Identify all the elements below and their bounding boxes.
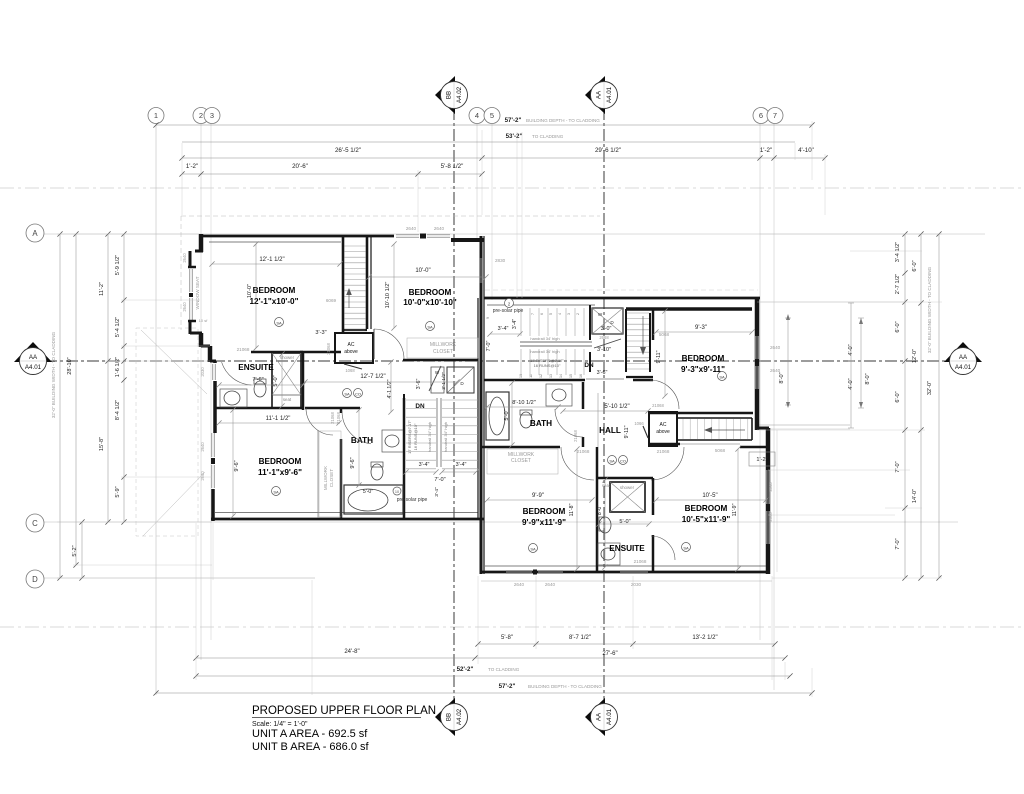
svg-text:10'-10 1/2": 10'-10 1/2": [385, 282, 391, 309]
stair A treads: [345, 245, 366, 247]
svg-text:BB: BB: [446, 713, 453, 721]
svg-text:3'-4": 3'-4": [419, 462, 430, 468]
ensuite A bottom wall: [214, 407, 303, 410]
stair B lower flight treads: [520, 349, 522, 375]
svg-text:CLOSET: CLOSET: [511, 458, 531, 464]
svg-text:10'-0"x10'-10": 10'-0"x10'-10": [403, 298, 457, 307]
dim line 26'-5 1/2 / 29'-6 1/2 top: [182, 157, 825, 159]
svg-text:A4.02: A4.02: [456, 708, 463, 725]
section marker AA bottom: [585, 698, 605, 736]
svg-text:5068: 5068: [715, 448, 726, 453]
svg-text:MILLWORK: MILLWORK: [323, 465, 328, 490]
svg-text:4'-10": 4'-10": [798, 147, 814, 154]
svg-text:13: 13: [549, 374, 553, 378]
roof line below unit B: [481, 580, 772, 582]
grid line 7: [773, 120, 775, 690]
svg-text:2640: 2640: [182, 253, 187, 263]
unit A bottom wall: [211, 518, 484, 521]
W/D closet unit A: [431, 367, 444, 393]
hall bottom wall mid: [648, 443, 680, 446]
door arc ensuite A: [222, 362, 252, 385]
svg-text:shower: shower: [620, 485, 635, 490]
right extension lines: [760, 233, 942, 235]
svg-text:BEDROOM: BEDROOM: [409, 288, 452, 297]
hall bottom walls: [481, 446, 560, 449]
svg-text:57'-2": 57'-2": [505, 117, 522, 124]
svg-text:2030: 2030: [631, 582, 642, 587]
bedroom B3 depth dim line: [737, 449, 739, 569]
roof outline dashed lower-left: [136, 328, 198, 536]
svg-text:9: 9: [486, 317, 490, 319]
door arc bath A: [342, 411, 371, 444]
svg-text:53'-2": 53'-2": [506, 133, 523, 140]
unit B right wall upper: [755, 298, 760, 430]
svg-text:3'-1 1/2": 3'-1 1/2": [441, 372, 447, 390]
ensuite A top wall: [251, 351, 303, 354]
svg-text:AA: AA: [959, 354, 968, 361]
door leaf AC closet: [344, 364, 362, 369]
svg-text:8'-10 1/2": 8'-10 1/2": [512, 400, 536, 406]
svg-text:2640: 2640: [200, 442, 205, 452]
svg-text:26'-5 1/2": 26'-5 1/2": [335, 147, 361, 154]
svg-text:52'-2": 52'-2": [457, 666, 474, 673]
bedroom B1 door stub wall: [633, 379, 653, 382]
dim line 57'-2" top: [156, 124, 812, 126]
window 2640 right upper2: [755, 366, 757, 389]
svg-text:BUILDING DEPTH - TO CLADDING: BUILDING DEPTH - TO CLADDING: [528, 684, 602, 689]
svg-text:7'-6": 7'-6": [252, 377, 263, 383]
svg-text:handrail 34" high: handrail 34" high: [427, 422, 432, 452]
grid line 6: [759, 120, 761, 640]
door arc bedroom A3: [306, 408, 333, 435]
svg-text:2640: 2640: [182, 302, 187, 312]
svg-text:10: 10: [395, 490, 399, 494]
right dim 32'-0 building width: [938, 234, 940, 578]
window 2640 bottom 2: [538, 570, 563, 572]
unit A top wall inner face: [209, 241, 341, 243]
hall B extension line: [597, 393, 599, 447]
svg-text:AA: AA: [596, 712, 603, 721]
svg-text:BEDROOM: BEDROOM: [523, 507, 566, 516]
svg-text:3'-4": 3'-4": [498, 326, 509, 332]
svg-text:3'-6": 3'-6": [416, 379, 422, 390]
wall at bedroom1 bottom / hall: [300, 351, 341, 354]
svg-text:10'-0": 10'-0": [415, 268, 430, 274]
svg-text:2'-7 1/2": 2'-7 1/2": [895, 274, 901, 294]
svg-text:1: 1: [154, 111, 158, 120]
svg-text:16 RUNS@10": 16 RUNS@10": [413, 423, 418, 450]
window 2030 left: [212, 364, 214, 380]
window 5068 hall south: [680, 443, 740, 445]
stair B down arrow: [642, 316, 644, 350]
bottom extension lines: [195, 523, 197, 680]
grid bubble 4: [469, 108, 485, 124]
svg-text:SA: SA: [276, 321, 282, 326]
bath A left wall: [340, 408, 343, 413]
svg-text:Scale: 1/4" = 1'-0": Scale: 1/4" = 1'-0": [252, 721, 308, 728]
shower A enclosure: [272, 353, 301, 408]
svg-text:9'-9"x11'-9": 9'-9"x11'-9": [522, 518, 566, 527]
svg-text:6069: 6069: [326, 298, 337, 303]
window 2640 left lower 2: [211, 465, 213, 488]
bath A tub: [344, 485, 403, 514]
left dim 32'-0 building width: [59, 234, 61, 578]
svg-text:9'-11": 9'-11": [656, 350, 662, 363]
unit A left wall upper: [199, 234, 204, 252]
ensuite A width dim line: [219, 384, 303, 386]
svg-text:2030: 2030: [200, 367, 205, 377]
hall A depth dim line: [390, 362, 392, 412]
unit B bottom wall: [481, 571, 770, 574]
svg-text:DN: DN: [415, 403, 425, 410]
top extension lines: [181, 143, 183, 215]
svg-text:2668: 2668: [599, 335, 609, 340]
svg-text:TO CLADDING: TO CLADDING: [532, 134, 564, 139]
ensuite B width dim line: [599, 523, 649, 525]
svg-text:2: 2: [199, 111, 203, 120]
svg-text:2840: 2840: [768, 482, 773, 492]
svg-text:11'-1 1/2": 11'-1 1/2": [266, 416, 291, 422]
bedroom B1 bottom wall: [648, 412, 753, 415]
extension verticals above unit B: [516, 132, 518, 298]
left extension lines: [57, 233, 199, 235]
svg-text:3'-0": 3'-0": [601, 326, 612, 332]
svg-text:5068: 5068: [659, 332, 670, 337]
svg-text:BEDROOM: BEDROOM: [682, 354, 725, 363]
svg-text:2640: 2640: [514, 582, 525, 587]
bottom dim 24'-8 / 27'-6 line: [196, 657, 785, 659]
svg-text:SA: SA: [719, 375, 725, 380]
hall B left wall: [589, 352, 591, 372]
bath A right wall: [403, 398, 406, 519]
svg-text:2640: 2640: [434, 226, 445, 231]
svg-text:BEDROOM: BEDROOM: [253, 286, 296, 295]
unit A left wall bottom: [211, 489, 215, 521]
svg-text:10'-5": 10'-5": [702, 493, 717, 499]
ensuite B sink: [598, 543, 620, 565]
svg-text:5'-2": 5'-2": [72, 545, 78, 556]
roof valley diagonal upper: [141, 330, 207, 394]
svg-text:CO: CO: [355, 392, 361, 397]
dim line 1'-2 / 20'-6 / 5'-8 1/2 top: [182, 173, 482, 175]
section line AA horizontal: [45, 360, 950, 362]
stair A shaft right wall: [366, 236, 369, 329]
bedroom A3 top wall right part: [305, 407, 360, 410]
stair strip right (hatch): [678, 417, 752, 419]
match line horizontal upper: [0, 187, 1024, 189]
stair B upper flight treads: [520, 308, 522, 336]
svg-text:8'-0": 8'-0": [865, 373, 871, 384]
section line BB vertical: [453, 108, 455, 700]
bath B walls: [484, 379, 585, 382]
bath A sink: [382, 430, 404, 452]
unit B top wall inner face: [487, 304, 595, 306]
svg-text:21068: 21068: [326, 343, 331, 355]
window 2030 bottom: [620, 570, 648, 572]
ensuite B depth dim line: [604, 480, 606, 567]
bottom dim 52'-2 line: [196, 675, 790, 677]
svg-text:2640: 2640: [545, 582, 556, 587]
svg-text:3'-4": 3'-4": [512, 319, 518, 329]
section marker BB top: [435, 76, 455, 114]
right dim chain 2: [920, 234, 922, 578]
window seat jog top: [195, 250, 203, 253]
svg-text:5'-0": 5'-0": [504, 409, 510, 420]
hall B north header line: [586, 378, 624, 380]
svg-text:21068: 21068: [634, 559, 647, 564]
svg-text:3: 3: [210, 111, 214, 120]
hall bottom wall right: [740, 446, 768, 449]
window 2640 right upper: [755, 336, 757, 359]
svg-text:W: W: [598, 312, 603, 317]
stair B vertical flight: [625, 309, 627, 372]
right dim chain 1: [904, 234, 906, 578]
bottom dim 5'-8 / 8'-7 / 13'-2 line: [478, 643, 775, 645]
svg-text:6'-0": 6'-0": [912, 260, 918, 271]
ensuite A depth dim line: [281, 354, 283, 406]
svg-text:3: 3: [567, 313, 571, 315]
svg-text:BUILDING DEPTH - TO CLADDING: BUILDING DEPTH - TO CLADDING: [526, 118, 600, 123]
door arc bedroom2: [374, 329, 404, 359]
svg-text:9'-9": 9'-9": [532, 493, 544, 499]
stair B landing wall: [626, 376, 653, 378]
svg-text:seat: seat: [283, 397, 292, 402]
svg-text:above: above: [344, 349, 358, 355]
svg-text:15: 15: [569, 374, 573, 378]
bedroom1 depth dim line: [255, 244, 257, 348]
svg-text:SA: SA: [273, 490, 279, 495]
door arc bedroom B3: [651, 447, 684, 480]
unit B right wall lower: [766, 428, 771, 574]
svg-text:12: 12: [539, 374, 543, 378]
grid line 5: [491, 122, 493, 300]
svg-text:7'-0": 7'-0": [895, 461, 901, 472]
svg-text:1'-6 1/2": 1'-6 1/2": [115, 357, 121, 377]
svg-text:A: A: [32, 229, 38, 238]
window seat mullion: [189, 293, 193, 297]
svg-text:10: 10: [519, 374, 523, 378]
svg-text:WINDOW SEAT: WINDOW SEAT: [195, 276, 200, 309]
left dim chain inner: [123, 234, 125, 522]
svg-text:32'-0" BUILDING WIDTH - TO CLA: 32'-0" BUILDING WIDTH - TO CLADDING: [51, 331, 56, 418]
svg-text:PROPOSED UPPER FLOOR PLAN: PROPOSED UPPER FLOOR PLAN: [252, 705, 436, 717]
stair A handrail: [436, 398, 438, 467]
svg-text:5'-4 1/2": 5'-4 1/2": [115, 317, 121, 337]
svg-text:28'-10": 28'-10": [67, 357, 73, 374]
bath A toilet: [371, 464, 383, 480]
grid bubble 1: [148, 108, 164, 124]
svg-text:5'-8": 5'-8": [501, 635, 513, 641]
svg-text:13'-2 1/2": 13'-2 1/2": [692, 635, 717, 641]
svg-text:above: above: [656, 429, 670, 435]
svg-text:21068: 21068: [237, 347, 250, 352]
millwork closet text A3: [317, 430, 319, 518]
svg-text:2: 2: [576, 313, 580, 315]
roof line right of unit B upper: [760, 301, 905, 303]
svg-text:5'-10 1/2": 5'-10 1/2": [604, 404, 629, 410]
svg-text:UNIT B AREA - 686.0 sf: UNIT B AREA - 686.0 sf: [252, 741, 370, 753]
svg-text:A4.01: A4.01: [606, 708, 613, 725]
grid bubble 7: [767, 108, 783, 124]
AC closet A: [335, 333, 373, 363]
millwork closet A3 outline: [319, 431, 341, 517]
bedroom B2 depth dim line: [576, 449, 578, 569]
AC closet B: [649, 412, 677, 446]
svg-text:7: 7: [773, 111, 777, 120]
svg-text:12'-1 1/2": 12'-1 1/2": [259, 257, 284, 263]
svg-text:10'-5"x11'-9": 10'-5"x11'-9": [682, 515, 731, 524]
window 2640 bottom: [506, 570, 532, 572]
unit A left wall ensuite segment: [213, 381, 217, 433]
door arc ensuite B: [651, 536, 675, 560]
grid bubble 2: [193, 108, 209, 124]
svg-text:3'-3": 3'-3": [315, 330, 326, 336]
bath B sink: [546, 384, 572, 406]
svg-text:5'-0": 5'-0": [363, 489, 373, 495]
bedroom A3 width dim line: [219, 422, 339, 424]
svg-text:5'-9 1/2": 5'-9 1/2": [115, 255, 121, 275]
bottom dim 57'-2 line: [156, 692, 812, 694]
svg-text:6: 6: [540, 313, 544, 315]
grid line C horizontal: [44, 521, 958, 523]
millwork closet A outline: [407, 338, 478, 358]
svg-text:C: C: [32, 519, 38, 528]
svg-text:16 RUNS@10": 16 RUNS@10": [534, 363, 561, 368]
svg-text:6: 6: [759, 111, 763, 120]
svg-text:TO CLADDING: TO CLADDING: [488, 667, 520, 672]
svg-text:ENSUITE: ENSUITE: [609, 544, 645, 553]
svg-text:8'-0": 8'-0": [597, 505, 603, 515]
hall A wall below closets: [403, 359, 478, 362]
ensuite B walls: [596, 447, 599, 572]
svg-text:57'-2": 57'-2": [499, 683, 516, 690]
unit B top wall: [484, 297, 760, 300]
svg-text:14'-0": 14'-0": [912, 489, 918, 503]
unit A top wall: [199, 235, 394, 238]
W/D door leaf: [594, 339, 621, 348]
svg-text:9'-3": 9'-3": [695, 325, 707, 331]
bedroom B1 depth dim line: [664, 311, 666, 396]
svg-text:handrail 34' high: handrail 34' high: [530, 349, 559, 354]
svg-text:3'-4": 3'-4": [456, 462, 467, 468]
unit A top wall right segment: [451, 238, 484, 242]
svg-text:11'-9": 11'-9": [732, 503, 738, 516]
roof valley diagonal lower: [143, 472, 205, 536]
svg-text:8'-7 1/2": 8'-7 1/2": [569, 635, 591, 641]
svg-text:2640: 2640: [200, 471, 205, 481]
svg-text:9'-3"x9'-11": 9'-3"x9'-11": [681, 365, 725, 374]
svg-text:12'-0": 12'-0": [912, 349, 918, 363]
party wall full: [480, 236, 483, 574]
bedroom B1 left wall: [652, 309, 655, 340]
bath A depth dim line: [358, 410, 360, 485]
svg-text:2640: 2640: [770, 368, 781, 373]
unit A left wall mid: [199, 333, 204, 347]
svg-text:9'-6": 9'-6": [234, 460, 240, 471]
svg-text:CO: CO: [620, 459, 626, 464]
window 2640 right lower2: [766, 511, 768, 544]
svg-text:seat: seat: [602, 483, 611, 488]
hall A width dim line: [305, 381, 457, 383]
svg-text:3'-4 1/2": 3'-4 1/2": [895, 242, 901, 262]
unit A left wall below AA: [210, 360, 216, 363]
svg-text:15'-8": 15'-8": [99, 437, 105, 451]
unit B right step wall: [755, 427, 769, 430]
ensuite B toilet: [599, 517, 611, 533]
svg-text:3'-6": 3'-6": [597, 370, 608, 376]
roof dashed right of unit B: [776, 430, 778, 572]
left dim 5'-2 line: [81, 522, 83, 578]
bedroom1 width dim line: [212, 263, 340, 265]
svg-text:AA: AA: [29, 354, 38, 361]
stair A up arrow: [348, 292, 350, 308]
grid bubble 5: [484, 108, 500, 124]
grid line A horizontal: [44, 233, 985, 235]
dim line 53'-2" top: [182, 141, 795, 143]
right mid dim 8'-0 / 4'-0 lines: [787, 318, 789, 405]
bedroom A3 depth dim line: [232, 410, 234, 516]
svg-text:5: 5: [549, 313, 553, 315]
stair dims unit A: [406, 471, 436, 473]
svg-text:4'-0": 4'-0": [848, 378, 854, 389]
svg-text:AC: AC: [660, 422, 667, 428]
window seat jog bottom: [188, 320, 196, 323]
svg-text:9'-6": 9'-6": [350, 457, 356, 468]
stair A lower wall: [343, 329, 367, 331]
W/D unit B: [592, 308, 623, 334]
section line AA vertical: [603, 108, 605, 700]
window 2840 right lower: [766, 470, 768, 504]
svg-text:10'-0": 10'-0": [247, 284, 253, 298]
svg-text:6'-0": 6'-0": [895, 321, 901, 332]
svg-text:20'-6": 20'-6": [292, 163, 308, 170]
ensuite A right wall: [302, 352, 305, 410]
svg-text:7'-0": 7'-0": [486, 341, 492, 352]
bath B width dim line: [487, 406, 558, 408]
bath B depth dim line: [511, 383, 513, 445]
svg-text:5: 5: [490, 111, 494, 120]
section marker AA left: [14, 342, 52, 362]
roof lines right of bedroom: [756, 424, 850, 426]
svg-text:SA: SA: [609, 459, 615, 464]
hall B width dim line: [563, 410, 648, 412]
ensuite A sink: [220, 389, 247, 407]
window seat window: [189, 269, 191, 292]
svg-text:BB: BB: [446, 91, 453, 99]
svg-text:CLOSET: CLOSET: [329, 469, 334, 488]
extension below left wall: [212, 523, 214, 580]
svg-text:ENSUITE: ENSUITE: [238, 363, 274, 372]
svg-text:11'-8": 11'-8": [569, 503, 575, 516]
svg-text:3'-10": 3'-10": [597, 347, 611, 353]
bedroom2 depth dim line: [393, 244, 395, 328]
window mullion: [420, 234, 426, 239]
party wall window 2830: [479, 258, 481, 283]
svg-text:SA: SA: [427, 325, 433, 330]
svg-text:3'-4": 3'-4": [434, 487, 440, 497]
svg-text:24'-8": 24'-8": [344, 649, 359, 655]
ensuite A toilet: [254, 381, 266, 397]
bedroom B3 width dim line: [656, 499, 766, 501]
svg-text:4: 4: [558, 313, 562, 315]
match line horizontal lower: [0, 626, 1024, 628]
svg-text:5'-8 1/2": 5'-8 1/2": [441, 163, 464, 170]
svg-text:A4.02: A4.02: [456, 86, 463, 103]
svg-text:7'-0": 7'-0": [895, 538, 901, 549]
svg-text:1'-2": 1'-2": [760, 147, 772, 154]
grid bubble A: [26, 224, 44, 242]
svg-text:CLOSET: CLOSET: [433, 349, 453, 355]
